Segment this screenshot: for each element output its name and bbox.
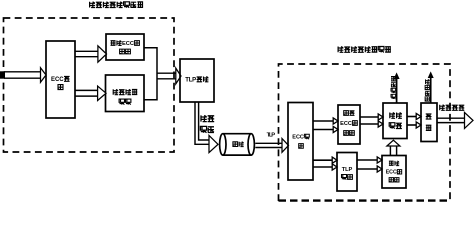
sender dashed box 数据链路层发送端	[4, 18, 175, 152]
label 新的ECC校验码	[340, 111, 357, 136]
receiver dashed box bottom edge (thicker)	[279, 199, 451, 201]
block: error correction 纠错	[421, 103, 437, 142]
wire: ECC解码 to 新的ECC校验码 (lower)	[313, 126, 338, 132]
block: ECC encoder ECC编码	[46, 41, 75, 118]
wire: ECC解码 to 新的ECC校验码 (upper)	[313, 118, 338, 124]
wire: 比较判断 to 纠错 (upper)	[407, 113, 421, 119]
label 数据存储单元	[113, 89, 137, 104]
receiver dashed box 数据链路层接收端	[279, 64, 451, 201]
block: ECC decoder ECC解码	[288, 103, 313, 181]
label ECC解码	[292, 134, 309, 148]
wire: TLP解析 to 初始ECC校验码 (lower)	[357, 166, 382, 172]
block: TLP encapsulation TLP封装	[180, 59, 214, 102]
wire: ECC解码 to TLP解析 (upper)	[313, 157, 337, 163]
block: new ECC check code 新的ECC校验码	[338, 105, 360, 144]
label 比较判断	[389, 113, 402, 129]
block: compare judge 比较判断	[383, 103, 407, 139]
block: TLP parse TLP解析	[337, 153, 357, 192]
wire: up arrow from 比较判断 (error flag)	[394, 72, 400, 103]
title: receiver 数据链路层接收端	[338, 47, 391, 53]
block: initial ECC check code 初始ECC校验码	[106, 34, 144, 60]
svg-text:ECC: ECC	[340, 121, 352, 127]
vertical label 错误标志	[391, 77, 396, 100]
title: sender 数据链路层发送端	[90, 2, 144, 8]
svg-text:ECC: ECC	[122, 41, 134, 47]
wire: vertical block arrow 初始ECC校验码 up to 比较判断	[387, 140, 400, 155]
block: initial ECC check code (rx) 初始ECC校验码	[382, 156, 406, 189]
svg-text:TLP: TLP	[185, 77, 196, 83]
wire: up arrow from 纠错 (retransmit request)	[428, 71, 434, 103]
svg-text:ECC: ECC	[51, 77, 64, 83]
channel cylinder 信道	[220, 134, 255, 155]
wire: 纠错 to data output 数据输出	[437, 112, 473, 128]
label 纠错	[426, 114, 432, 130]
wire: ECC编码 to 初始ECC校验码	[75, 46, 107, 62]
svg-text:ECC: ECC	[292, 135, 304, 141]
label 初始ECC校验码	[111, 41, 140, 54]
svg-text:TLP: TLP	[342, 167, 353, 173]
label 初始ECC校验码 rx	[386, 161, 402, 182]
wire: channel to receiver ECC解码 (TLP)	[255, 139, 288, 153]
label TLP解析	[342, 167, 353, 179]
wire: ECC解码 to TLP解析 (lower)	[313, 164, 337, 170]
wire: 比较判断 to 纠错 (lower)	[407, 122, 421, 128]
wire: merge bracket from both blocks	[144, 48, 157, 100]
label 数据发送 (data send)	[200, 115, 214, 132]
svg-text:ECC: ECC	[386, 170, 397, 176]
wire: TLP解析 to 初始ECC校验码 (upper)	[357, 157, 382, 163]
block: data storage unit 数据存储单元	[106, 75, 145, 112]
label 数据输出 (data output)	[440, 105, 465, 111]
wire: bracket to TLP封装	[157, 68, 181, 84]
wire: ECC编码 to 数据存储单元	[75, 86, 106, 100]
arrowhead into channel	[209, 135, 218, 152]
label TLP封装	[185, 77, 208, 84]
label 信道	[233, 142, 244, 147]
wire: 新的ECC校验码 to 比较判断 (upper)	[360, 114, 383, 120]
svg-text:TLP: TLP	[267, 132, 276, 138]
wire: down-then-right hollow corridor from TLP封装 to channel	[195, 102, 209, 144]
wire: 新的ECC校验码 to 比较判断 (lower)	[360, 121, 383, 127]
vertical label 重传请求	[425, 79, 430, 101]
label ECC编码	[51, 76, 70, 89]
input block arrow with black square terminal	[0, 68, 46, 83]
